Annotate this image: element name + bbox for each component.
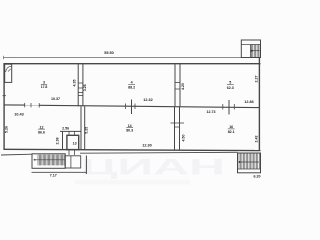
svg-text:2.56: 2.56	[62, 126, 69, 130]
shaft left lower walls	[80, 106, 82, 149]
svg-text:5.25: 5.25	[84, 127, 88, 134]
wall bottom outer	[1, 153, 32, 156]
room13 box	[67, 135, 79, 149]
shaft right bottom wall B	[179, 106, 181, 149]
shaft left wall B	[82, 64, 84, 106]
shaft left ticks	[78, 82, 83, 84]
shaft right bottom ticks	[171, 122, 185, 124]
svg-text:13: 13	[73, 141, 77, 145]
watermark smudge band	[75, 180, 190, 185]
svg-text:10.37: 10.37	[51, 97, 60, 101]
stair top-right box	[241, 40, 260, 58]
stair bottom-right arrow	[239, 161, 259, 163]
door jambs at stub	[125, 104, 127, 110]
stair top-right divider	[250, 45, 252, 58]
door gap jambs middle wall left	[24, 103, 26, 107]
wall right	[258, 58, 260, 151]
closet door arc	[6, 66, 12, 72]
svg-text:86.6: 86.6	[38, 131, 45, 135]
svg-text:17.8: 17.8	[41, 85, 48, 89]
svg-text:2.38: 2.38	[56, 138, 60, 145]
terrace right wall	[85, 156, 87, 175]
stair hatch bottom-right	[239, 153, 259, 169]
hall wall above room13	[60, 130, 81, 132]
svg-text:4.20: 4.20	[181, 83, 185, 90]
svg-text:62.3: 62.3	[227, 86, 234, 90]
wall stub room5/16	[228, 100, 230, 115]
stair bottom-left center line	[34, 159, 65, 161]
door jambs at stub2	[222, 104, 224, 110]
svg-text:82.1: 82.1	[228, 130, 235, 134]
wall middle horizontal right	[39, 105, 259, 107]
wall left	[3, 63, 5, 150]
stair bottom-right box	[238, 153, 261, 173]
svg-text:12.86: 12.86	[244, 100, 254, 104]
stair hatch bottom-left	[38, 155, 64, 166]
stair bottom-left box	[32, 154, 65, 169]
svg-text:88.2: 88.2	[128, 86, 135, 90]
wall stub room4/14	[131, 100, 133, 115]
svg-text:12.73: 12.73	[207, 110, 216, 114]
room13 neck top	[68, 131, 70, 135]
door threshold lines	[25, 104, 40, 106]
shaft right top ticks	[175, 82, 180, 84]
svg-text:16: 16	[229, 125, 233, 129]
svg-text:7.17: 7.17	[50, 173, 57, 177]
svg-text:12: 12	[40, 125, 44, 129]
svg-text:5.26: 5.26	[5, 126, 9, 133]
stair top-right inner line	[241, 44, 260, 46]
svg-text:3: 3	[43, 80, 45, 84]
svg-text:14: 14	[128, 124, 132, 128]
left wall tick	[3, 95, 7, 97]
stair top-right arrow	[251, 50, 259, 52]
svg-text:2.27: 2.27	[255, 76, 259, 83]
svg-text:12.32: 12.32	[143, 98, 153, 102]
closet door leaf	[8, 69, 11, 72]
wall top	[4, 63, 261, 65]
svg-text:6.20: 6.20	[254, 175, 261, 179]
shaft left wall A	[77, 64, 79, 106]
ground line below stair	[32, 171, 87, 173]
porch	[65, 156, 81, 168]
stair hatch top-right	[251, 45, 260, 58]
stair bottom-right inner line	[238, 168, 261, 170]
shaft right bottom wall A	[174, 106, 176, 149]
shaft right top wall A	[174, 64, 176, 106]
wall middle horizontal left	[4, 104, 25, 106]
shaft right top wall B	[179, 64, 181, 106]
svg-text:10.43: 10.43	[14, 113, 24, 117]
svg-text:4.50: 4.50	[182, 135, 186, 142]
porch inner line	[70, 156, 72, 168]
dimension line top	[4, 57, 242, 59]
dimension tick left	[3, 56, 5, 59]
svg-text:5: 5	[229, 81, 231, 85]
svg-text:4: 4	[131, 80, 133, 84]
svg-text:80.3: 80.3	[126, 128, 133, 132]
svg-text:12.30: 12.30	[142, 144, 152, 148]
closet wall left of room13	[62, 131, 64, 149]
room13 neck bottom	[68, 150, 70, 156]
svg-text:2.42: 2.42	[255, 136, 259, 143]
closet top-left	[5, 64, 12, 82]
svg-text:ЦИАН: ЦИАН	[81, 155, 225, 180]
svg-text:3.26: 3.26	[83, 84, 87, 91]
wall bottom inner	[4, 149, 261, 150]
svg-text:4.35: 4.35	[72, 80, 76, 87]
svg-text:55.50: 55.50	[104, 51, 114, 55]
